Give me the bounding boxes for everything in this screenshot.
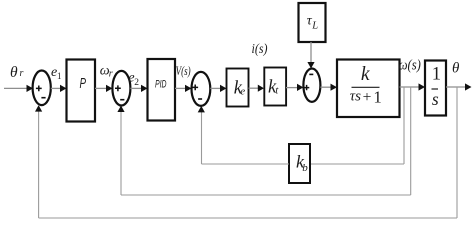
wire outer loop tap down [456,87,458,218]
svg-text:1: 1 [57,71,62,81]
svg-text:P: P [80,76,87,92]
summing junction S1 [33,71,51,106]
wire kb loop horizontal right [310,163,404,165]
block P [67,60,96,122]
wire omega loop tap down [410,87,412,195]
label omega(s) [399,58,421,74]
svg-text:L: L [311,21,318,32]
svg-text:1: 1 [373,88,382,107]
summing junction S2 [112,71,130,106]
svg-text:+: + [363,89,372,106]
svg-text:i(s): i(s) [252,42,268,57]
label e1 [51,65,62,81]
block kb [289,144,310,183]
svg-text:V(s): V(s) [176,64,191,78]
wire ke to kt [249,85,265,92]
wire kb loop horizontal left [202,163,290,165]
wire S4 to plant [320,84,337,91]
wire kb loop up to S3 [198,106,205,164]
wire PID to S3 [175,85,192,92]
wire omega loop up to S2 [117,106,124,196]
wire S1 to P [51,85,67,92]
label theta output [452,60,460,76]
wire integrator to output [446,83,472,90]
svg-text:r: r [20,68,24,79]
block PID [148,59,176,121]
svg-text:2: 2 [134,78,139,88]
svg-text:k: k [361,64,370,85]
svg-text:s: s [432,89,439,109]
wire kb loop tap down [403,87,405,164]
block kt [264,68,286,106]
svg-text:PID: PID [155,79,167,91]
wire plant to integrator [400,83,426,90]
svg-text:b: b [302,162,308,174]
svg-text:1: 1 [432,65,441,85]
wire kt to S4 [286,84,303,91]
wire outer loop horizontal [39,217,457,219]
label e2 [128,71,139,89]
block ke [227,69,249,107]
svg-text:τs: τs [350,89,361,105]
summing junction S3 [192,72,211,106]
wire input theta_r [4,85,33,92]
block plant k/(tau s + 1) [337,60,400,118]
svg-text:θ: θ [10,64,18,81]
block integrator 1/s [425,61,446,116]
wire S3 to ke [210,85,226,92]
svg-text:r: r [109,69,113,80]
wire tau_L to S4 [307,42,314,69]
svg-text:e: e [240,86,245,98]
summing junction S4 [303,69,320,102]
label V(s) [176,64,191,78]
wire outer loop up to S1 [35,105,42,218]
svg-text:ω(s): ω(s) [399,58,421,74]
wire omega loop horizontal [121,194,411,196]
label theta_r [10,64,24,81]
wire S2 to PID [130,85,147,92]
label i(s) [252,42,268,57]
label omega_r [100,63,113,79]
wire P to S2 [95,85,112,92]
block tau_L [299,3,326,42]
svg-text:θ: θ [452,60,460,76]
